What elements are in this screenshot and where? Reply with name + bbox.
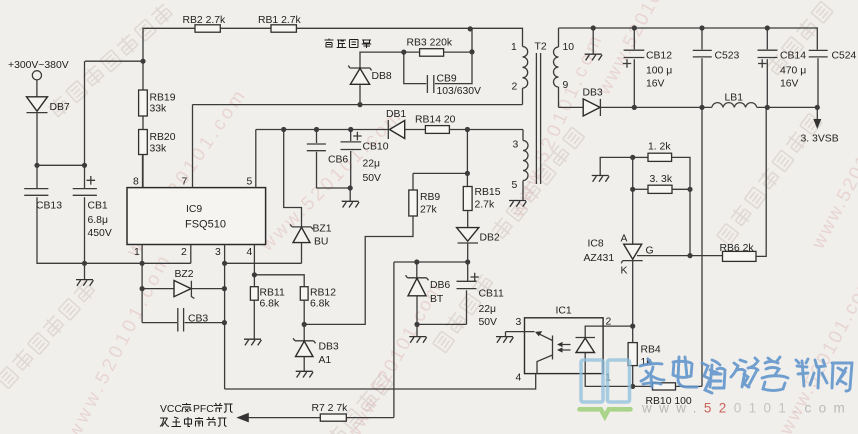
svg-text:10: 10 bbox=[563, 42, 575, 53]
node junction RB3 left bbox=[401, 50, 406, 55]
wire secondary top rail bbox=[559, 28, 818, 50]
wire C523 column to opto bbox=[701, 107, 703, 386]
node junction 3.3k left bbox=[630, 187, 635, 192]
wire BZ1 to gnd rail bbox=[301, 243, 303, 264]
svg-text:2: 2 bbox=[181, 247, 187, 258]
svg-text:450V: 450V bbox=[88, 228, 112, 239]
wire DB7 to CB13 bbox=[36, 113, 38, 188]
svg-text:RB1 2.7k: RB1 2.7k bbox=[258, 15, 302, 26]
wire stub to ground bbox=[349, 188, 351, 201]
node junction C523 bottom bbox=[699, 105, 704, 110]
svg-text:DB3: DB3 bbox=[583, 88, 603, 99]
svg-text:CB11: CB11 bbox=[479, 289, 504, 300]
wire DB8 anode to drain rail bbox=[359, 84, 361, 104]
transistor opto phototransistor bbox=[535, 331, 553, 374]
op-amp IC9 FSQ510 box bbox=[127, 188, 266, 245]
svg-text:IC8: IC8 bbox=[588, 239, 604, 250]
node junction RB19 top bbox=[140, 59, 145, 64]
svg-text:K: K bbox=[621, 266, 628, 277]
svg-text:50V: 50V bbox=[363, 173, 382, 184]
svg-text:3. 3VSB: 3. 3VSB bbox=[801, 134, 839, 145]
wire CB3 left lead bbox=[142, 322, 177, 324]
node junction CB12 top bbox=[632, 25, 637, 30]
wire drain rail bbox=[193, 104, 523, 106]
svg-text:C524: C524 bbox=[832, 51, 857, 62]
transformer T2 secondary winding pins 10-9 bbox=[554, 28, 575, 107]
node +300V~380V input terminal bbox=[8, 60, 69, 80]
svg-text:+300V~380V: +300V~380V bbox=[8, 60, 69, 71]
svg-text:33k: 33k bbox=[150, 104, 168, 115]
node junction RB9/RB15 tap bbox=[465, 171, 470, 176]
svg-text:R7 2 7k: R7 2 7k bbox=[312, 403, 349, 414]
svg-text:www.520101.com: www.520101.com bbox=[641, 401, 852, 416]
wire pin1 down bbox=[141, 263, 143, 322]
resistor RB19 33k bbox=[139, 90, 176, 116]
svg-text:A: A bbox=[621, 234, 628, 245]
node junction CB14 bottom bbox=[765, 105, 770, 110]
node junction gnd stub bbox=[591, 25, 596, 30]
svg-text:100 μ: 100 μ bbox=[646, 66, 672, 77]
svg-text:PFC: PFC bbox=[193, 404, 214, 415]
ground under DB6 bbox=[409, 337, 426, 343]
svg-text:27k: 27k bbox=[420, 205, 438, 216]
wire AZ431 gate bbox=[637, 255, 690, 257]
svg-text:CB6: CB6 bbox=[328, 155, 348, 166]
svg-text:DB3: DB3 bbox=[319, 342, 339, 353]
svg-text:DB2: DB2 bbox=[480, 233, 500, 244]
node junction CB10 bottom bbox=[348, 185, 353, 190]
wire CB6 bottom jog bbox=[317, 187, 351, 189]
svg-text:4: 4 bbox=[247, 247, 253, 258]
svg-text:16V: 16V bbox=[646, 79, 665, 90]
svg-text:RB9: RB9 bbox=[420, 192, 440, 203]
wire RB9 bottom path bbox=[304, 216, 413, 324]
pin 7 label bbox=[182, 105, 193, 188]
pin 5 label bbox=[247, 130, 256, 188]
node junction CB10 top bbox=[348, 127, 353, 132]
svg-text:BZ2: BZ2 bbox=[175, 269, 194, 280]
wire snubber top branch bbox=[360, 52, 404, 68]
wire CB3 right lead bbox=[185, 322, 225, 324]
svg-text:C523: C523 bbox=[715, 51, 740, 62]
resistor RB9 27k bbox=[409, 190, 441, 216]
resistor RB15 2.7k bbox=[463, 173, 500, 210]
wire DB6-CB11 bottom row bbox=[417, 324, 467, 336]
svg-text:CB10: CB10 bbox=[363, 142, 389, 153]
diode BZ2 bbox=[174, 269, 194, 299]
resistor RB1 2.7k bbox=[258, 15, 302, 32]
node junction CB14 top bbox=[765, 25, 770, 30]
diode DB3 bbox=[583, 88, 603, 117]
node junction CB12 bottom bbox=[632, 105, 637, 110]
svg-text:4: 4 bbox=[516, 373, 522, 384]
wire CB1 bottom bbox=[84, 197, 86, 263]
capacitor CB6 bbox=[307, 130, 349, 189]
ground under CB10 bbox=[342, 201, 359, 207]
node junction RB4-RB10 bbox=[630, 384, 635, 389]
wire 1.2k right bbox=[672, 157, 690, 255]
node junction pin2-RB4 bbox=[630, 324, 635, 329]
svg-text:BT: BT bbox=[430, 294, 444, 305]
diode DB1 bbox=[386, 109, 406, 139]
wire RB3 leads bbox=[404, 51, 472, 53]
svg-text:2: 2 bbox=[512, 82, 518, 93]
opto light arrows bbox=[557, 342, 571, 353]
wire RB2 to RB1 bbox=[220, 27, 271, 29]
svg-text:7: 7 bbox=[182, 177, 188, 188]
capacitor CB3 bbox=[178, 308, 209, 332]
wire CB9 right lead bbox=[435, 52, 472, 84]
wire divider gnd stub bbox=[600, 157, 633, 175]
wire output rail bbox=[600, 106, 817, 108]
opto IC1 box bbox=[525, 306, 604, 374]
svg-text:50V: 50V bbox=[479, 317, 498, 328]
wire gnd stub bbox=[592, 28, 594, 54]
ground under DB3 A1 bbox=[296, 371, 313, 377]
wire vcc2 row bbox=[394, 261, 468, 263]
pin 2 label bbox=[181, 245, 191, 264]
node junction CB3-pin3 bbox=[222, 320, 227, 325]
capacitor CB12 100u 16V bbox=[623, 28, 672, 107]
svg-text:RB19: RB19 bbox=[150, 93, 176, 104]
node junction DB6 top bbox=[414, 259, 419, 264]
diode DB8 bbox=[348, 66, 392, 85]
svg-text:1: 1 bbox=[134, 247, 140, 258]
svg-text:5: 5 bbox=[247, 177, 253, 188]
svg-text:CB12: CB12 bbox=[646, 51, 672, 62]
pin 4 label bbox=[247, 245, 255, 275]
wire primary bottom to drain rail bbox=[522, 88, 524, 105]
svg-text:RB11: RB11 bbox=[260, 288, 285, 299]
node junction snubber top bbox=[468, 26, 473, 31]
resistor 3.3k bbox=[633, 174, 673, 193]
wire pin3 gnd stub bbox=[505, 332, 507, 337]
wire tap to RB9 bbox=[413, 173, 467, 190]
pin 1 label bbox=[134, 245, 142, 264]
svg-text:3: 3 bbox=[215, 247, 221, 258]
wire BZ2 cathode to pin3 column bbox=[192, 288, 225, 290]
shunt-reg IC8 AZ431 bbox=[584, 234, 654, 277]
wire top rail to T2 primary bbox=[296, 28, 522, 46]
svg-text:G: G bbox=[646, 246, 654, 257]
svg-text:RB12: RB12 bbox=[310, 288, 336, 299]
resistor RB20 33k bbox=[139, 130, 176, 155]
wire pin3 long bottom run bbox=[225, 374, 536, 389]
transformer T2 core bbox=[535, 42, 547, 185]
wire RB14 to T2 pin3 bbox=[449, 129, 523, 131]
wire DB2 cathode down bbox=[467, 243, 469, 281]
capacitor CB11 22u 50V bbox=[457, 273, 504, 328]
svg-text:3: 3 bbox=[516, 317, 522, 328]
wire RB6 to output rail bbox=[756, 107, 766, 256]
svg-text:DB8: DB8 bbox=[372, 71, 392, 82]
wire RB4 bottom bbox=[632, 366, 634, 387]
svg-text:3: 3 bbox=[513, 140, 519, 151]
wire VCC arrow line bbox=[247, 417, 394, 419]
pin 3 label bbox=[506, 317, 535, 332]
label 高压吸收 bbox=[325, 39, 372, 49]
svg-text:FSQ510: FSQ510 bbox=[185, 219, 226, 231]
wire divider left column bbox=[632, 157, 634, 244]
svg-text:1: 1 bbox=[511, 42, 517, 53]
wire CB1 column top bbox=[84, 61, 86, 188]
svg-text:DB7: DB7 bbox=[50, 102, 70, 113]
svg-text:RB20: RB20 bbox=[150, 132, 176, 143]
ground divider bbox=[592, 176, 609, 182]
node junction C524 bottom bbox=[815, 105, 820, 110]
wire pin3 rail to BZ1 bbox=[225, 262, 302, 264]
svg-text:BZ1: BZ1 bbox=[313, 224, 332, 235]
wire snubber right riser bbox=[471, 29, 473, 52]
resistor R7 2.7k bbox=[312, 403, 349, 421]
diode DB7 bbox=[27, 97, 70, 113]
resistor RB14 20 bbox=[405, 115, 456, 134]
node junction RB14-RB15 bbox=[465, 127, 470, 132]
pin 1 label bbox=[605, 373, 611, 384]
wire BZ1 branch bbox=[284, 130, 302, 227]
svg-text:RB6 2k: RB6 2k bbox=[720, 243, 755, 254]
svg-text:6.8μ: 6.8μ bbox=[88, 215, 108, 226]
svg-text:6.8k: 6.8k bbox=[310, 299, 330, 310]
node junction 3.3k right bbox=[687, 187, 692, 192]
pin 3 label bbox=[215, 245, 225, 390]
svg-text:T2: T2 bbox=[535, 42, 547, 53]
svg-text:16V: 16V bbox=[780, 79, 799, 90]
label 及主电源芯片 bbox=[160, 417, 227, 427]
LOGO bbox=[580, 357, 853, 417]
pin 8 label bbox=[133, 155, 143, 188]
node junction gnd rail CB1 bbox=[82, 261, 87, 266]
wire stub to ground bbox=[84, 263, 86, 279]
inductor LB1 bbox=[712, 93, 757, 108]
svg-text:5: 5 bbox=[512, 180, 518, 191]
capacitor CB13 bbox=[24, 189, 62, 212]
svg-text:DB6: DB6 bbox=[430, 280, 450, 291]
ground under T2 pin5 bbox=[509, 201, 526, 207]
wire CB13 bottom to gnd rail bbox=[37, 197, 191, 263]
diode DB2 bbox=[457, 211, 500, 244]
wire CB13/CB1 junction row bbox=[37, 164, 85, 166]
svg-text:RB3 220k: RB3 220k bbox=[407, 38, 453, 49]
svg-text:BU: BU bbox=[314, 237, 328, 248]
zener DB3 A1 bbox=[293, 338, 339, 366]
wire +300V feed line bbox=[85, 60, 143, 62]
node VCC arrow head bbox=[236, 413, 249, 423]
wire divider branch bbox=[466, 130, 468, 174]
node junction DB6 gnd bbox=[414, 322, 419, 327]
wire AZ431 K down bbox=[632, 261, 634, 327]
resistor RB2 2.7k bbox=[183, 15, 227, 32]
node junction DB2-CB11 bbox=[465, 259, 470, 264]
svg-text:LB1: LB1 bbox=[725, 93, 744, 104]
node junction DB8-rail bbox=[357, 102, 362, 107]
svg-text:CB13: CB13 bbox=[36, 201, 62, 212]
pin 4 label bbox=[516, 373, 522, 384]
node junction gate bbox=[687, 253, 692, 258]
svg-text:470 μ: 470 μ bbox=[780, 66, 806, 77]
resistor 1.2k bbox=[633, 142, 672, 162]
node junction pin1 gnd rail bbox=[140, 261, 145, 266]
transformer T2 primary winding pins 1-2 bbox=[511, 42, 528, 93]
resistor RB3 220k bbox=[407, 38, 453, 57]
wire input down to DB7 bbox=[36, 80, 38, 97]
svg-text:CB1: CB1 bbox=[88, 201, 108, 212]
svg-text:RB15: RB15 bbox=[475, 187, 501, 198]
wire vcc rail pin5 bbox=[256, 129, 388, 131]
node junction pin4 RB11 bbox=[252, 272, 257, 277]
svg-text:IC1: IC1 bbox=[556, 306, 572, 317]
ground opto pin3 bbox=[496, 337, 513, 343]
capacitor CB14 470u 16V bbox=[758, 28, 807, 107]
ground under CB1 bbox=[76, 280, 93, 286]
svg-text:6.8k: 6.8k bbox=[260, 299, 280, 310]
node junction DB7-CB13 bbox=[34, 163, 39, 168]
svg-text:IC9: IC9 bbox=[186, 204, 202, 215]
wire R7 column bbox=[393, 262, 395, 418]
pin 2 label bbox=[606, 317, 612, 328]
wire secondary bottom to DB3 bbox=[559, 106, 584, 108]
zener DB6 BT bbox=[406, 262, 451, 305]
wire 3.3k right bbox=[672, 188, 690, 190]
svg-text:A1: A1 bbox=[319, 355, 332, 366]
capacitor C523 bbox=[693, 28, 740, 107]
node junction BZ2-pin3 bbox=[222, 286, 227, 291]
label VCC供PFC芯片 bbox=[160, 403, 233, 415]
resistor RB6 2k bbox=[690, 243, 756, 261]
wire CB9 left lead bbox=[404, 52, 427, 84]
svg-text:103/630V: 103/630V bbox=[437, 86, 482, 97]
svg-text:33k: 33k bbox=[150, 144, 168, 155]
svg-text:VCC: VCC bbox=[160, 404, 182, 415]
node junction CB1 top bbox=[82, 163, 87, 168]
node junction RB12-DB3 bbox=[302, 322, 307, 327]
wire pin4 row to RB12 bbox=[254, 275, 304, 287]
svg-text:CB14: CB14 bbox=[780, 51, 806, 62]
svg-text:RB14 20: RB14 20 bbox=[415, 115, 456, 126]
wire riser to top rail bbox=[143, 28, 195, 61]
wire RB11 to ground bbox=[253, 300, 255, 339]
transformer T2 aux winding pins 3-5 bbox=[512, 130, 529, 201]
node 3.3VSB output arrow bbox=[801, 107, 839, 144]
wire RB12 bottom bbox=[303, 300, 305, 340]
svg-text:22μ: 22μ bbox=[479, 304, 497, 315]
svg-text:9: 9 bbox=[563, 80, 569, 91]
node junction BZ1 branch bbox=[281, 127, 286, 132]
zener BZ1 BU bbox=[290, 224, 332, 248]
resistor RB4 1k bbox=[628, 326, 661, 368]
svg-text:DB1: DB1 bbox=[386, 109, 406, 120]
svg-text:2.7k: 2.7k bbox=[475, 200, 495, 211]
capacitor CB9 103/630V bbox=[427, 74, 481, 98]
node junction RB3 right bbox=[469, 49, 474, 54]
svg-text:1. 2k: 1. 2k bbox=[648, 142, 671, 153]
resistor RB11 6.8k bbox=[250, 287, 285, 310]
node junction C523 top bbox=[699, 25, 704, 30]
capacitor CB10 22u 50V bbox=[341, 130, 389, 189]
ground secondary top bbox=[585, 54, 602, 60]
resistor RB12 6.8k bbox=[300, 287, 336, 310]
wire DB3 to ground bbox=[303, 357, 305, 372]
wire DB6 bottom bbox=[416, 296, 418, 325]
svg-text:CB9: CB9 bbox=[437, 74, 457, 85]
wire RB19 column bbox=[142, 61, 144, 187]
ground under RB11 bbox=[244, 339, 261, 345]
wire BZ2 anode lead bbox=[142, 288, 174, 290]
node junction CB6 top bbox=[314, 127, 319, 132]
svg-text:22μ: 22μ bbox=[363, 159, 381, 170]
node junction BZ2 anode bbox=[140, 286, 145, 291]
wire RB10 right to C523 column bbox=[676, 385, 703, 387]
svg-text:8: 8 bbox=[133, 177, 139, 188]
svg-text:3. 3k: 3. 3k bbox=[650, 174, 673, 185]
diode opto LED bbox=[576, 326, 633, 386]
capacitor CB1 6.8u 450V bbox=[73, 176, 112, 239]
svg-text:AZ431: AZ431 bbox=[584, 253, 615, 264]
svg-text:RB2 2.7k: RB2 2.7k bbox=[183, 15, 227, 26]
node junction pin3 rail bbox=[222, 261, 227, 266]
capacitor C524 bbox=[809, 50, 857, 107]
svg-text:RB4: RB4 bbox=[641, 345, 661, 356]
node junction 1.2k left bbox=[630, 155, 635, 160]
resistor RB10 100 bbox=[633, 383, 692, 407]
